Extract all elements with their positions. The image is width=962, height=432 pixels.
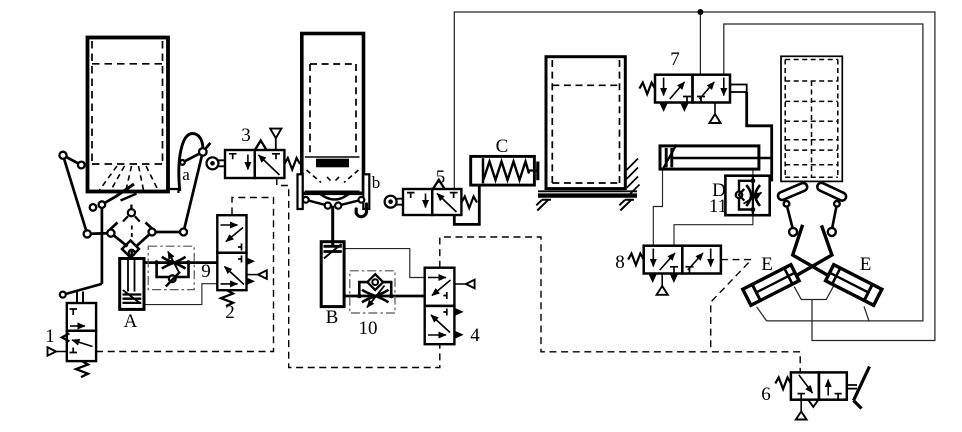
wire: cylinder A to valve 2 working line through flow control 9: [144, 261, 217, 264]
svg-text:5: 5: [436, 167, 446, 188]
wire: pilot line valve 8 to valve 6 network (dashed): [711, 260, 752, 352]
cable arc over pivot a: [179, 134, 203, 192]
wire: cylinder B to valve 4 working line through flow control 10: [344, 295, 425, 298]
svg-text:1: 1: [45, 326, 55, 347]
stand platform: [538, 190, 637, 192]
hopper 2 (weigh bucket): [302, 34, 364, 194]
svg-text:A: A: [124, 311, 138, 332]
svg-text:C: C: [496, 136, 509, 157]
svg-text:E: E: [761, 254, 773, 275]
exhaust triangle valve 1: [48, 347, 57, 355]
lever: a short arm: [203, 143, 211, 152]
spring valve 7: [639, 83, 655, 95]
spring valve 2: [221, 290, 233, 306]
diamond pivot square: [122, 241, 139, 258]
rod: gate rod down to valve 1 lever: [101, 205, 104, 284]
scissor rod B: [796, 225, 832, 276]
valve 5 (3/2 roller valve): [403, 180, 477, 215]
linkage joint circles hopper 1: [59, 148, 206, 256]
cylinder D: [660, 145, 772, 171]
lever actuator valve 1: [66, 284, 102, 294]
stacked package: [781, 56, 842, 181]
dashed centre of diamond frame: [131, 226, 133, 242]
vent triangle valve 8: [661, 274, 663, 287]
wire: pilot line valve 3 to valve 4 bottom (dashed): [277, 178, 440, 368]
vent triangle valve 6: [800, 400, 802, 412]
lever: left bell crank: [63, 155, 87, 234]
wire: cylinder D rod port down to flow control 11: [752, 169, 754, 176]
link: a pivot to wall: [182, 152, 202, 163]
cylinder C (spring buffer): [471, 156, 538, 185]
hopper 1 gate flap (slash): [116, 184, 134, 196]
svg-text:10: 10: [359, 318, 378, 339]
wire: flow control 11 bottom to valve 8 right: [674, 215, 753, 246]
exhaust triangles valve 4: [454, 308, 462, 315]
left plate: [298, 174, 303, 209]
cylinder E right: [826, 265, 882, 306]
valve 8 (4/2 pilot valve): [628, 246, 721, 295]
svg-text:b: b: [372, 173, 381, 192]
flow control 10 (one-way throttle): [350, 271, 395, 313]
valve 3 (3/2 roller valve): [225, 129, 300, 178]
gate levers: [306, 200, 362, 206]
pilot triangle valve 4: [454, 283, 466, 285]
stand left foot with hatch: [536, 199, 551, 210]
stand right foot with hatch: [619, 199, 634, 210]
cylinder A: [120, 250, 144, 310]
wire: valve 7 top-right port up, across, down inner right side to E cap line: [724, 24, 923, 321]
pilot port valve 7: [730, 85, 747, 93]
spring valve 5: [461, 197, 477, 209]
svg-text:8: 8: [615, 252, 625, 273]
wire: cylinder B top port to valve 4: [344, 249, 425, 278]
wire: cylinder D cap port to valve 8 left: [653, 169, 662, 246]
svg-text:E: E: [860, 254, 872, 275]
diamond frame lower edges: [111, 233, 128, 246]
svg-text:9: 9: [201, 261, 211, 282]
link: horizontal to a-lever: [152, 231, 184, 234]
roller a of valve 3: [207, 157, 226, 169]
svg-text:7: 7: [670, 49, 680, 70]
pilot triangle valve 2: [247, 274, 259, 276]
wire: cylinder A bottom port to valve 2: [144, 284, 217, 305]
link: gate flap lever: [102, 196, 117, 205]
exhaust vent valve 3: [275, 138, 277, 150]
hopper 2 gate joints: [303, 197, 364, 209]
scissor rod A: [793, 225, 829, 276]
wire: valve 5 top port up, across top, down right side to gripper rod-common: [454, 12, 935, 341]
exhaust triangles valve 2: [247, 258, 254, 265]
svg-text:D: D: [712, 180, 726, 201]
link: horizontal to diamond: [87, 232, 111, 235]
wall hatching right of container: [627, 159, 640, 197]
container on stand (hopper 3): [536, 57, 639, 211]
link right finger to crank: [832, 205, 837, 230]
spring valve 1: [76, 361, 88, 377]
valve 7 (4/2 pilot valve): [639, 75, 746, 123]
svg-text:6: 6: [761, 384, 771, 405]
valve 2 (pilot valve for cylinder A): [217, 215, 266, 306]
exhaust triangles valve 7: [660, 103, 668, 111]
wire: pilot line valve 4 top to valve 6 (dashed): [440, 237, 800, 372]
cylinder E left: [743, 265, 799, 306]
svg-text:3: 3: [241, 125, 251, 146]
node: junction on top supply line: [697, 9, 703, 15]
link left finger to crank: [787, 205, 793, 230]
hopper 1 weighing linkage: [63, 134, 210, 284]
exhaust check valve 6: [808, 400, 818, 407]
wire: diagonal to left cylinder E cap: [757, 307, 767, 321]
hopper 1 funnel material dashes: [100, 166, 158, 190]
top pivot handle of diamond: [123, 205, 140, 222]
gripper pivot circles: [784, 201, 840, 236]
diamond frame upper ticks: [110, 223, 118, 230]
hopper 2 funnel dashes: [307, 170, 359, 183]
wire: diagonal from right cylinder E cap: [864, 307, 869, 321]
lever actuator valve 6: [847, 385, 857, 389]
right plate: [363, 174, 369, 209]
hopper 2 bottom gate: [298, 174, 370, 246]
wire: branch from top line down to valve 7 left supply: [699, 12, 701, 75]
spring valve 6: [775, 378, 791, 390]
hopper 1 right wall foot: [168, 178, 179, 193]
cylinder B: [321, 242, 344, 307]
svg-text:a: a: [182, 165, 190, 184]
trip hook b: [356, 204, 366, 217]
flow control 11 (one-way throttle): [725, 176, 769, 216]
spring valve 3: [284, 158, 300, 170]
wire: valve 7 pilot line down to flow control 11 box: [747, 92, 772, 181]
svg-text:4: 4: [470, 325, 480, 346]
valve 1 (3/2 lever valve): [48, 284, 102, 377]
wire: valve 5 output to cylinder C: [454, 185, 479, 224]
gripper finger right: [816, 182, 847, 202]
roller b of valve 5: [385, 196, 403, 208]
hopper 2 weight block: [316, 159, 349, 168]
wire: pilot line valve 1 to valve 2 top (dashed): [96, 198, 273, 352]
gripper finger left: [777, 182, 809, 201]
link: wall anchor: [63, 155, 81, 165]
svg-text:B: B: [326, 307, 339, 328]
hopper 1 (weigh hopper): [88, 38, 179, 201]
bowl arc: [318, 192, 351, 200]
valve 4 (pilot valve for cylinder B): [425, 268, 475, 344]
lever: long lever to pivot a: [184, 152, 203, 232]
spring valve 8: [628, 254, 644, 266]
valve 6 (3/2 lever valve): [775, 367, 869, 420]
flow control 9 (one-way throttle): [148, 246, 194, 289]
exhaust triangles valve 8: [649, 274, 657, 282]
wire: rod-side funnel between cylinders E: [794, 287, 833, 300]
svg-text:2: 2: [225, 302, 235, 323]
rod down to cylinder B: [331, 206, 334, 246]
gripper mechanism: [777, 182, 848, 276]
vent triangle valve 7: [714, 103, 716, 115]
